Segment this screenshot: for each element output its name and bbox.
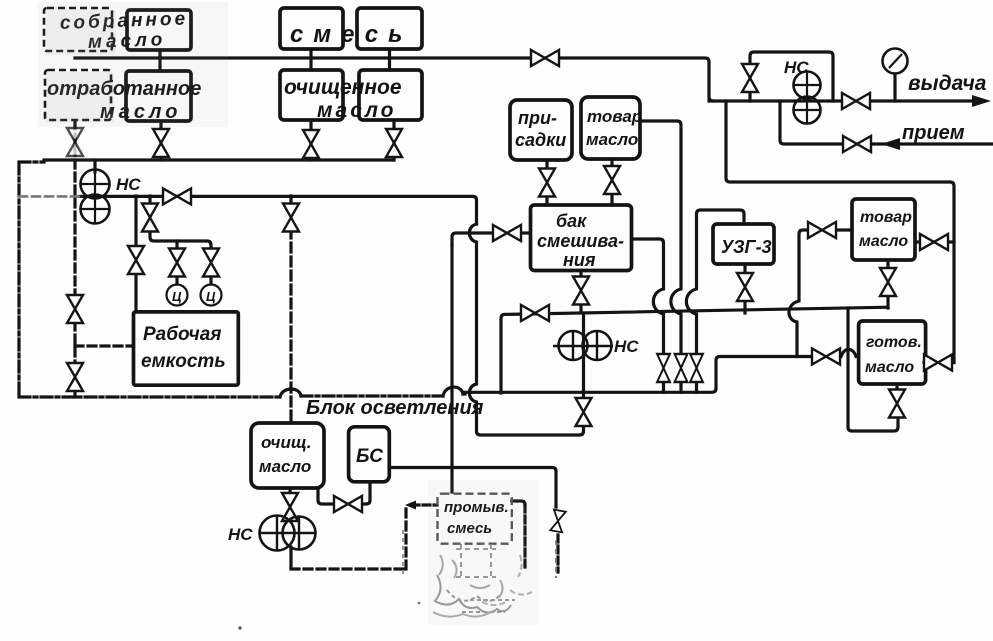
ghost: scattered faint blobs: [439, 555, 503, 598]
svg-text:масло: масло: [259, 457, 311, 476]
valve V31 below ochishch bottom: [282, 493, 298, 521]
valve V3 below ochishchennoe1: [303, 130, 319, 158]
gauge: pressure indicator: [883, 49, 908, 74]
valve V27 gotov feed: [812, 349, 840, 365]
wire: row1 to row2 link: [158, 50, 161, 71]
valve V19 bak feed: [493, 225, 521, 241]
wire: bottom pump to dashed return: [289, 547, 292, 566]
wire: gotov feed hop over vert848: [841, 349, 859, 356]
valve V2 below otrabotannoe: [153, 129, 169, 157]
valve V32 ochishch-BS: [334, 496, 362, 512]
tank: otrabotannoe maslo (solid): [126, 71, 191, 121]
valve V23c: [690, 354, 703, 382]
arrow: dashed return small: [405, 501, 416, 510]
valve V16 ochishch column: [283, 204, 299, 232]
valve V30 center pump column: [576, 398, 592, 426]
tank: gotov maslo: [859, 321, 926, 384]
wire: dashed link to rabochaya tank: [75, 344, 133, 347]
svg-text:Ц: Ц: [172, 289, 182, 304]
svg-text:масло: масло: [317, 99, 397, 122]
pump P1 left NS: [80, 169, 110, 224]
speck: [418, 602, 421, 605]
svg-text:Рабочая: Рабочая: [143, 324, 222, 345]
wire: prisadki valve stubs: [545, 160, 548, 205]
valve V28 gotov out: [924, 355, 952, 371]
scan smudge bottom-center: [428, 480, 538, 625]
valve V6 bypass leg: [742, 64, 758, 92]
pump P3 center NS: [553, 331, 613, 360]
tank: smes 2: [357, 8, 422, 49]
valve V17 below prisadki: [539, 169, 555, 197]
pump P2 top right NS: [793, 71, 821, 124]
svg-text:БС: БС: [356, 446, 383, 467]
wire: dashed below diag valve: [556, 535, 559, 572]
valve V26 tovar right bottom: [880, 268, 896, 296]
wire: bypass loop top-right: [750, 52, 833, 101]
tank: ochishchennoe maslo 2: [359, 70, 422, 120]
wire: long mid line y313 sloping to y307: [501, 307, 888, 393]
valve V12 above C1: [169, 249, 185, 277]
wire: three parallel valve stubs to y393: [664, 382, 697, 392]
wire: ochishch column dashed down: [289, 229, 292, 422]
svg-text:емкость: емкость: [141, 351, 226, 372]
wire: vertical 452 down to dirty-mix box: [450, 245, 453, 492]
wire: bak bottom valve stubs: [579, 271, 582, 314]
valve V22 below UZG: [737, 273, 753, 301]
svg-text:НС: НС: [614, 337, 639, 356]
speck: [238, 626, 241, 629]
wire: collector line y160: [44, 158, 394, 161]
valve V23b: [675, 354, 688, 382]
valve V9 on y196: [163, 188, 191, 204]
svg-text:смешива-: смешива-: [537, 231, 624, 251]
svg-text:выдача: выдача: [908, 72, 987, 95]
valve V20 bak bottom: [573, 277, 589, 305]
wire: ochishch oil box2 riser: [388, 58, 391, 70]
wire: priem line: [780, 101, 993, 144]
valve V4 below ochishchennoe2: [386, 129, 402, 157]
svg-text:садки: садки: [515, 130, 566, 150]
wire: main delivery line to arrow: [709, 99, 974, 102]
arrow: vydacha: [972, 95, 991, 107]
wire: C-circle branch x177: [175, 241, 178, 250]
valve V1 dashed below left row2 box: [67, 128, 83, 156]
valve V23a: [657, 354, 670, 382]
svg-text:Блок осветления: Блок осветления: [306, 397, 484, 419]
valve V29 gotov bottom: [889, 390, 905, 418]
valve V7 vydacha: [842, 93, 870, 109]
valve V8 priem: [843, 136, 871, 152]
tank: smes 1: [280, 8, 343, 49]
wire: tovar right valve line with s-hop down to y355: [789, 230, 808, 357]
valve V15 left column lower: [67, 363, 83, 391]
wire: dashed boundary top stub: [19, 160, 44, 163]
tank: ochishchennoe maslo 1: [280, 70, 343, 120]
valve V5 on header line: [531, 50, 559, 66]
tank: sobrannoe maslo (solid): [127, 10, 191, 50]
svg-text:ния: ния: [563, 250, 596, 270]
wire: right tall loop from main line down to gotov valve: [726, 101, 954, 363]
wire: smes box2 drop: [388, 49, 391, 58]
wire: dashed return loop bottom: [291, 509, 406, 569]
wire: valve stub ochishch1: [309, 120, 312, 160]
ghost: faint marks below dirty-mix box: [461, 544, 491, 578]
tank: ochishch maslo bottom: [251, 423, 324, 488]
valve V24 tovar right feed: [808, 222, 836, 238]
scan smudge top-left: [38, 2, 228, 127]
tank: tovar maslo right: [852, 199, 915, 260]
hop: boundary over x452: [443, 387, 463, 396]
svg-text:УЗГ-3: УЗГ-3: [721, 237, 772, 257]
svg-text:масло: масло: [865, 359, 914, 376]
tank: rabochaya emkost: [134, 312, 239, 385]
wire: from small valve to C-circles header: [150, 229, 211, 250]
svg-text:готов.: готов.: [866, 334, 922, 351]
wire: left pump discharge line y196: [80, 196, 477, 224]
wire: BS right line to diag valve: [389, 468, 556, 508]
tank: gryaznaya smes (dashed faint): [438, 494, 512, 544]
wire: bak output right with s-hop: [634, 239, 664, 354]
svg-text:смесь: смесь: [290, 21, 412, 48]
wire: branch y196 small valve x150: [148, 196, 151, 206]
wire: dashed boundary left edge: [17, 163, 20, 397]
valve V13 above C2: [203, 249, 219, 277]
wire: tovar top valve stubs: [610, 159, 613, 205]
svg-text:прием: прием: [902, 122, 965, 144]
wire: dashed stub to dirty box: [412, 503, 437, 506]
tank: otrabotannoe maslo (dashed left): [45, 70, 111, 120]
wire: tovar right valve to box: [836, 228, 852, 231]
wire: branch y196 to rabochaya tank valve: [134, 196, 137, 247]
wire: ochishch oil box1 riser: [309, 58, 312, 70]
wire: tovar-oil top box right side with s-hop: [641, 121, 681, 354]
tank: UZG-3: [713, 224, 774, 264]
tank: sobrannoe maslo (dashed left): [44, 8, 112, 51]
valve V10 x150: [142, 204, 158, 232]
svg-text:очищ.: очищ.: [261, 433, 311, 452]
wire: solid line y393 under three valves: [465, 357, 811, 393]
wire: gotov bottom valve stub: [895, 384, 898, 389]
pump P4 bottom NS: [259, 516, 316, 551]
svg-text:при-: при-: [518, 108, 557, 128]
wire: tovar right bottom valve stubs: [886, 260, 889, 308]
wire: gauge stem: [893, 74, 896, 101]
tank: BS: [349, 427, 390, 482]
wire: gotov right valve stubs: [924, 361, 954, 364]
wire: center pump column: [582, 313, 585, 400]
wire: left dashed process column x75: [73, 121, 76, 296]
wire: bak feed line y233: [452, 233, 493, 245]
wire: top header line y58: [75, 58, 713, 101]
svg-text:бак: бак: [556, 211, 587, 231]
svg-text:масло: масло: [859, 233, 908, 250]
svg-text:товар: товар: [860, 209, 912, 226]
wire: left dashed segment of y196: [19, 195, 80, 198]
arrow: priem: [881, 138, 900, 150]
svg-text:очищенное: очищенное: [284, 76, 402, 99]
wire: valve stub ochishch2: [392, 120, 395, 160]
wire: dashed boundary bottom with hops: [19, 394, 465, 397]
valve V14 left column upper: [67, 295, 83, 323]
valve V21 on long mid line: [521, 305, 549, 321]
wire: vertical 476 with hops down to pump bottom loop: [469, 224, 583, 435]
wire: uzg top loop with s-hop: [686, 210, 744, 354]
svg-text:НС: НС: [116, 175, 141, 194]
wire: uzg valve stubs: [743, 264, 746, 313]
wire: bak feed after valve: [521, 231, 530, 234]
tank: bak smeshivaniya: [531, 205, 632, 271]
svg-text:масло: масло: [586, 130, 638, 149]
valve V33 diagonal small: [550, 510, 565, 533]
svg-text:товар: товар: [587, 107, 642, 126]
tank: tovar maslo top: [581, 97, 640, 159]
wire: tovar right box to vert954: [915, 240, 954, 243]
wire: pump suction stub left: [93, 160, 96, 172]
hop: boundary over x291: [280, 389, 301, 397]
C circle 2: [201, 285, 222, 306]
wire: dirty box top-right link: [512, 501, 525, 505]
tank: prisadki: [510, 100, 572, 160]
svg-text:НС: НС: [784, 58, 809, 77]
svg-text:НС: НС: [228, 525, 253, 544]
wire: smes box1 drop: [309, 49, 312, 58]
valve V11 x136: [128, 246, 144, 274]
wire: ochishch-bottom valve stubs: [288, 488, 291, 520]
wire: ochishch column solid stub + valve: [289, 196, 292, 206]
C circle 1: [167, 285, 188, 306]
wire: valve stub otrabotannoe: [159, 121, 162, 160]
wire: C valve stubs: [177, 275, 211, 284]
wire: ochishch to BS U-link: [318, 488, 335, 504]
valve V18 below tovar top: [604, 166, 620, 194]
svg-text:Ц: Ц: [206, 289, 216, 304]
wire: vert 848 and bottom loop of gotov oil: [848, 308, 898, 431]
valve V25 tovar right out: [920, 234, 948, 250]
